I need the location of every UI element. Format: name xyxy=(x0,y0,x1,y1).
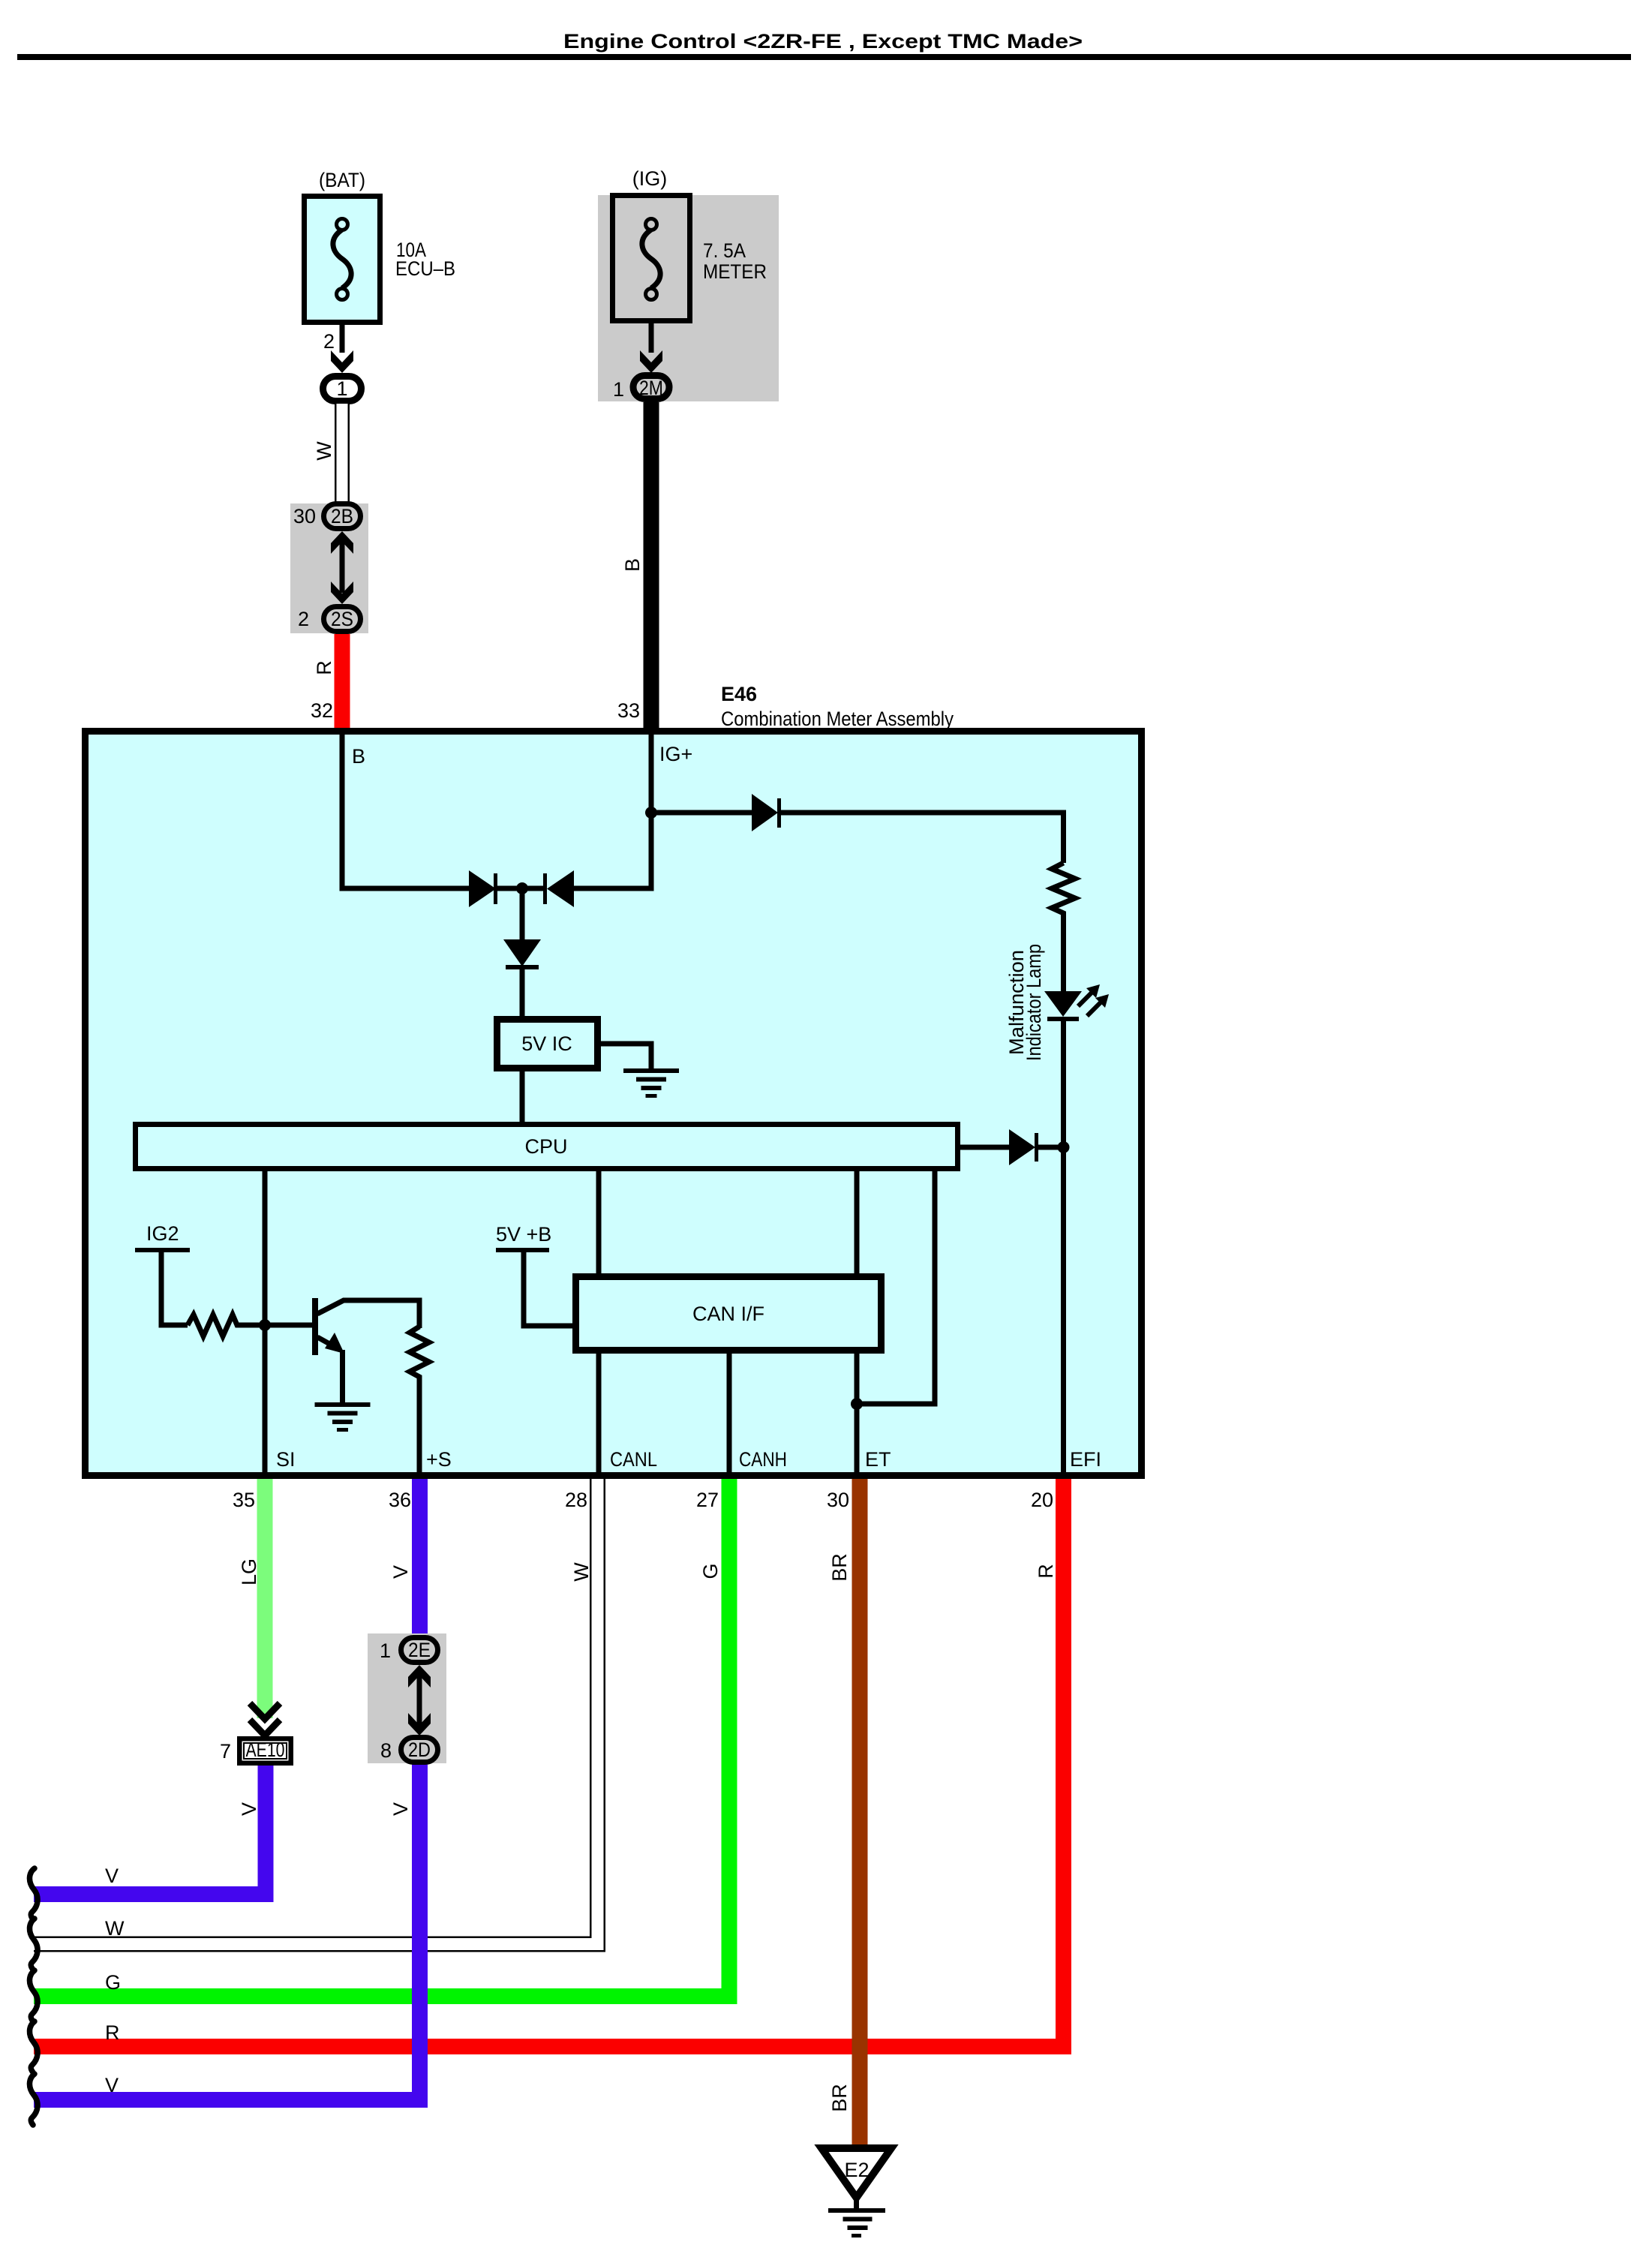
svg-text:V: V xyxy=(105,2074,119,2096)
svg-text:R: R xyxy=(313,660,335,675)
svg-text:EFI: EFI xyxy=(1070,1448,1101,1471)
svg-text:E46: E46 xyxy=(721,683,757,705)
svg-text:1: 1 xyxy=(336,377,347,400)
svg-text:7. 5A: 7. 5A xyxy=(703,239,746,262)
svg-text:5V +B: 5V +B xyxy=(496,1223,551,1246)
svg-text:30: 30 xyxy=(293,505,316,527)
svg-text:28: 28 xyxy=(565,1489,587,1511)
svg-text:AE10: AE10 xyxy=(246,1739,285,1761)
svg-text:5V IC: 5V IC xyxy=(521,1032,572,1055)
svg-text:G: G xyxy=(105,1971,121,1994)
svg-text:2D: 2D xyxy=(408,1739,431,1761)
svg-text:BR: BR xyxy=(828,1553,851,1582)
svg-text:32: 32 xyxy=(311,699,333,722)
svg-text:+S: +S xyxy=(426,1448,452,1471)
svg-text:20: 20 xyxy=(1031,1489,1053,1511)
svg-text:R: R xyxy=(1035,1564,1057,1579)
svg-text:CANL: CANL xyxy=(610,1448,657,1471)
svg-text:2S: 2S xyxy=(331,608,353,630)
svg-text:V: V xyxy=(389,1565,412,1579)
svg-text:2: 2 xyxy=(323,330,335,353)
svg-text:BR: BR xyxy=(828,2084,851,2112)
svg-text:33: 33 xyxy=(617,699,640,722)
svg-text:(IG): (IG) xyxy=(632,167,668,190)
svg-text:V: V xyxy=(238,1802,260,1816)
svg-text:LG: LG xyxy=(238,1558,260,1585)
svg-text:2: 2 xyxy=(298,608,309,630)
svg-text:1: 1 xyxy=(380,1639,391,1662)
svg-text:METER: METER xyxy=(703,260,767,283)
svg-text:CPU: CPU xyxy=(524,1135,567,1158)
svg-text:ET: ET xyxy=(865,1448,891,1471)
svg-text:SI: SI xyxy=(276,1448,296,1471)
svg-text:8: 8 xyxy=(380,1739,392,1762)
svg-text:7: 7 xyxy=(220,1740,231,1763)
svg-text:2M: 2M xyxy=(639,377,663,399)
svg-text:Engine Control <2ZR-FE , Excep: Engine Control <2ZR-FE , Except TMC Made… xyxy=(563,30,1083,53)
svg-text:W: W xyxy=(105,1917,125,1940)
svg-text:W: W xyxy=(570,1562,593,1582)
svg-text:R: R xyxy=(105,2021,120,2044)
svg-text:B: B xyxy=(352,745,365,768)
svg-text:IG2: IG2 xyxy=(146,1222,179,1245)
svg-text:CAN I/F: CAN I/F xyxy=(692,1303,764,1325)
svg-text:Indicator Lamp: Indicator Lamp xyxy=(1023,944,1045,1061)
svg-text:36: 36 xyxy=(389,1489,411,1511)
svg-text:2E: 2E xyxy=(408,1639,431,1661)
svg-text:27: 27 xyxy=(696,1489,719,1511)
svg-text:35: 35 xyxy=(233,1489,255,1511)
svg-text:IG+: IG+ xyxy=(659,743,692,765)
svg-text:1: 1 xyxy=(613,378,624,401)
svg-text:E2: E2 xyxy=(844,2159,869,2181)
svg-text:W: W xyxy=(313,441,335,461)
svg-text:G: G xyxy=(699,1563,722,1579)
svg-text:Combination Meter Assembly: Combination Meter Assembly xyxy=(721,708,954,730)
svg-text:30: 30 xyxy=(827,1489,849,1511)
svg-text:V: V xyxy=(389,1802,412,1816)
svg-text:CANH: CANH xyxy=(739,1448,787,1471)
svg-text:V: V xyxy=(105,1865,119,1887)
svg-text:ECU–B: ECU–B xyxy=(395,257,455,280)
svg-text:B: B xyxy=(621,558,644,572)
svg-text:(BAT): (BAT) xyxy=(319,169,365,191)
svg-text:2B: 2B xyxy=(331,505,353,527)
